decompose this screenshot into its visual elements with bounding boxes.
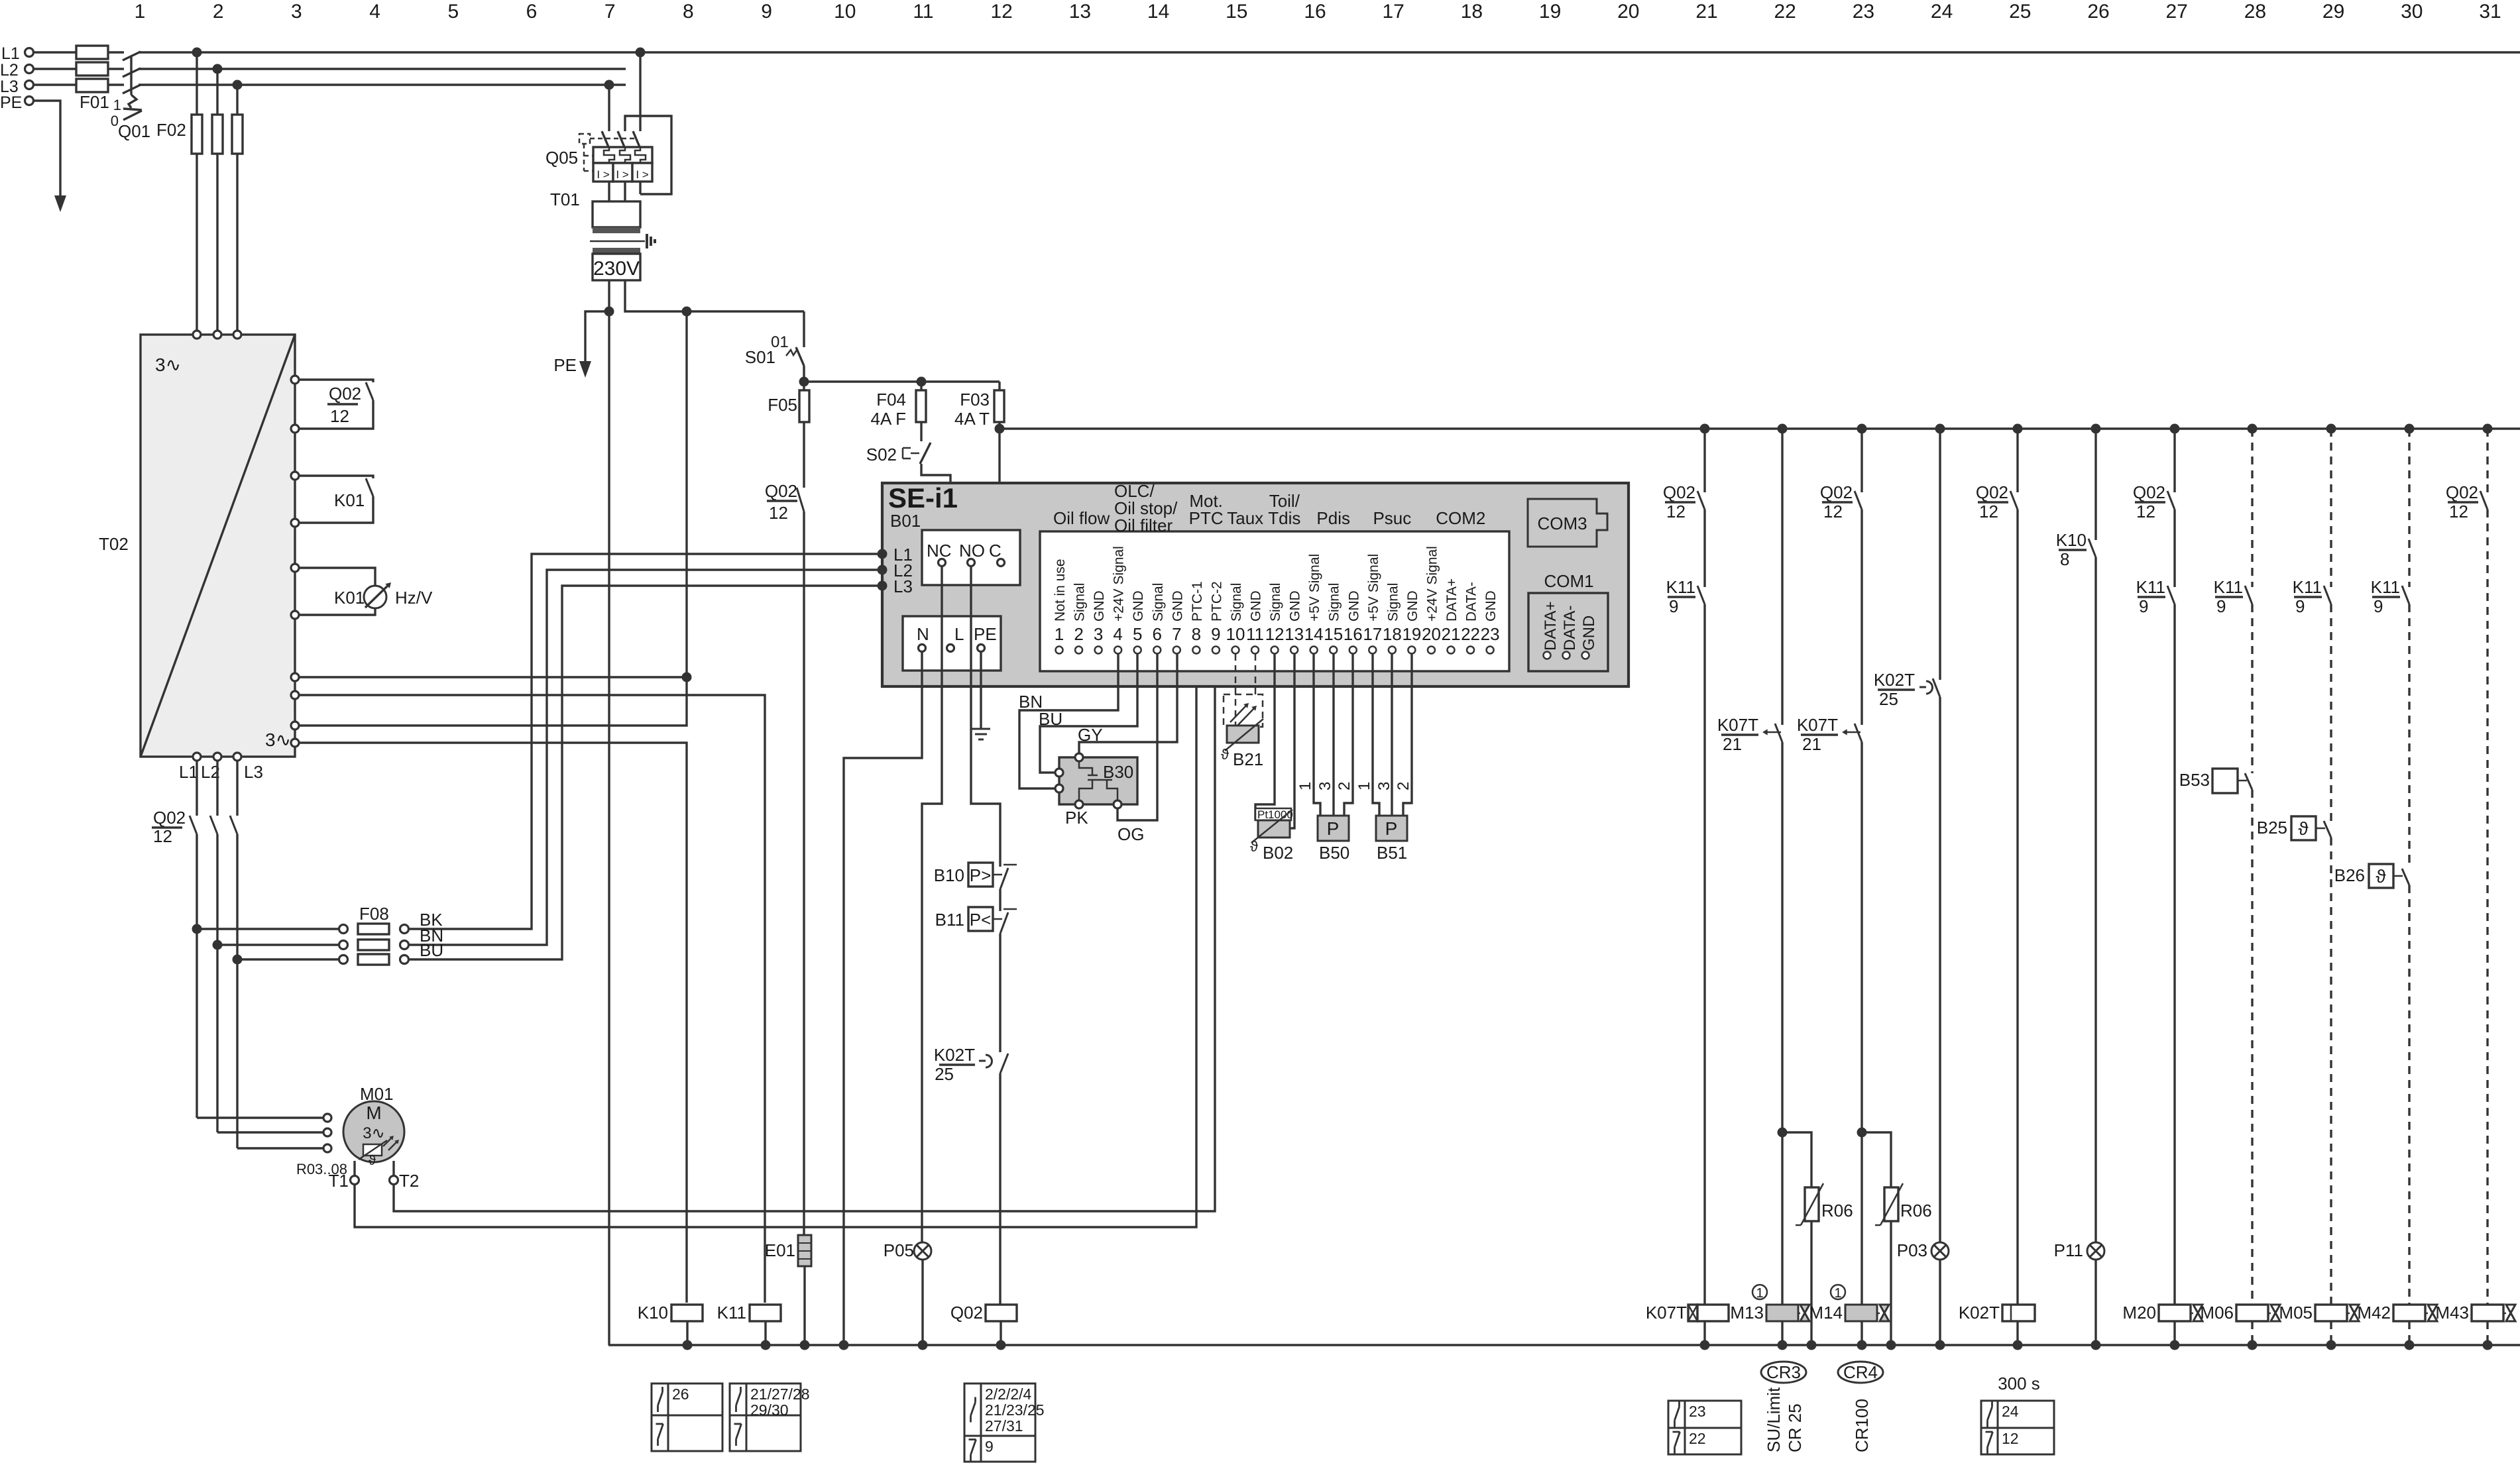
svg-text:COM1: COM1	[1544, 571, 1593, 591]
svg-text:K02T: K02T	[1874, 670, 1915, 690]
module B01 SE-i1 (protection device)	[882, 483, 1629, 686]
wire secondary right (230V live)	[625, 280, 804, 311]
sensor B02 Pt1000 (oil temperature)	[1255, 654, 1275, 820]
fuse block F01	[76, 46, 108, 59]
SE-i1 N L PE box	[903, 616, 1001, 671]
svg-text:2: 2	[1395, 782, 1412, 790]
svg-text:I >: I >	[597, 168, 609, 181]
svg-text:Q02: Q02	[950, 1303, 983, 1323]
svg-text:3∿: 3∿	[265, 730, 291, 750]
svg-text:22: 22	[1461, 624, 1480, 644]
contact Q02/12 (3-pole motor contactor)	[190, 816, 197, 834]
svg-text:3: 3	[1094, 624, 1103, 644]
svg-text:12: 12	[2002, 1430, 2019, 1447]
rail M14 (column 23)	[1861, 429, 1862, 492]
oil sensor B30	[1059, 757, 1137, 804]
svg-text:3: 3	[291, 1, 302, 23]
svg-text:22: 22	[1774, 1, 1796, 23]
svg-text:B21: B21	[1233, 749, 1263, 769]
svg-text:SU/Limit: SU/Limit	[1764, 1387, 1784, 1452]
svg-text:+5V Signal: +5V Signal	[1366, 554, 1381, 622]
svg-text:K10: K10	[638, 1303, 668, 1323]
svg-text:GND: GND	[1092, 590, 1107, 622]
svg-text:PTC: PTC	[1189, 508, 1224, 528]
svg-text:K02T: K02T	[934, 1045, 975, 1065]
svg-text:31: 31	[2479, 1, 2501, 23]
svg-text:Q02: Q02	[2446, 482, 2478, 502]
svg-text:K11: K11	[2214, 577, 2243, 597]
svg-text:26: 26	[672, 1385, 689, 1403]
svg-text:29/30: 29/30	[750, 1401, 789, 1419]
svg-text:COM2: COM2	[1436, 508, 1485, 528]
svg-text:8: 8	[1192, 624, 1201, 644]
svg-text:25: 25	[1879, 689, 1898, 709]
svg-text:S02: S02	[866, 445, 897, 464]
svg-text:6: 6	[1153, 624, 1162, 644]
rail M13 (column 22)	[1781, 429, 1783, 725]
svg-text:19: 19	[1539, 1, 1561, 23]
svg-text:P: P	[1327, 818, 1340, 839]
junction dots to F08	[192, 924, 202, 934]
svg-text:DATA+: DATA+	[1542, 602, 1560, 651]
junction control bus	[799, 377, 809, 387]
svg-text:2/2/2/4: 2/2/2/4	[985, 1385, 1032, 1403]
earth symbol	[972, 728, 990, 730]
svg-text:+24V Signal: +24V Signal	[1112, 546, 1127, 622]
svg-text:BU: BU	[420, 940, 443, 960]
svg-text:ϑ: ϑ	[1221, 746, 1229, 763]
svg-text:PK: PK	[1065, 808, 1088, 828]
svg-text:10: 10	[834, 1, 856, 23]
PE arrow from transformer secondary	[585, 311, 609, 361]
svg-text:13: 13	[1069, 1, 1091, 23]
svg-text:M06: M06	[2200, 1303, 2234, 1323]
svg-text:K11: K11	[2293, 577, 2322, 597]
svg-text:17: 17	[1383, 1, 1404, 23]
Q05 thermal overload box	[593, 147, 652, 163]
top control bus 230V	[1000, 427, 2520, 429]
wire T2 to SE-i1 PTC-2	[394, 653, 1215, 1211]
svg-text:15: 15	[1324, 624, 1343, 644]
mark 1 above M13	[1752, 1285, 1767, 1299]
svg-text:T2: T2	[399, 1171, 419, 1191]
svg-text:P05: P05	[884, 1240, 914, 1260]
switch Q01 (main switch, 3-pole)	[123, 52, 141, 60]
wire secondary left to N rail	[608, 280, 610, 1345]
svg-text:PTC-1: PTC-1	[1190, 581, 1205, 622]
contact table K02T	[1981, 1401, 2054, 1454]
svg-text:9: 9	[1211, 624, 1220, 644]
svg-text:5: 5	[1133, 624, 1142, 644]
svg-text:M14: M14	[1809, 1303, 1843, 1323]
svg-text:8: 8	[683, 1, 694, 23]
svg-text:1: 1	[1055, 624, 1064, 644]
svg-text:13: 13	[1285, 624, 1304, 644]
dashed rail M06 (column 28)	[2251, 429, 2253, 587]
svg-text:24: 24	[2002, 1403, 2019, 1420]
svg-text:Psuc: Psuc	[1373, 508, 1411, 528]
svg-text:2: 2	[213, 1, 224, 23]
svg-text:12: 12	[153, 826, 172, 846]
svg-text:PE: PE	[0, 93, 22, 112]
svg-text:9: 9	[761, 1, 772, 23]
svg-text:K11: K11	[2136, 577, 2165, 597]
svg-text:26: 26	[2087, 1, 2109, 23]
svg-text:16: 16	[1304, 1, 1326, 23]
secondary 230V box	[593, 254, 640, 280]
svg-text:21/23/25: 21/23/25	[985, 1401, 1045, 1419]
svg-text:6: 6	[526, 1, 538, 23]
svg-text:12: 12	[991, 1, 1013, 23]
svg-text:9: 9	[1669, 596, 1678, 616]
svg-text:B11: B11	[935, 910, 964, 930]
dashed rail M05 (column 29)	[2330, 429, 2332, 587]
svg-text:GND: GND	[1346, 590, 1361, 622]
svg-text:Signal: Signal	[1268, 583, 1283, 622]
svg-text:Signal: Signal	[1229, 583, 1244, 622]
svg-text:PE: PE	[553, 355, 577, 375]
svg-text:K11: K11	[1666, 577, 1695, 597]
svg-text:Q02: Q02	[329, 384, 361, 404]
svg-text:14: 14	[1147, 1, 1169, 23]
svg-text:B50: B50	[1319, 843, 1349, 863]
svg-text:CR 25: CR 25	[1785, 1403, 1805, 1452]
svg-text:K07T: K07T	[1797, 715, 1838, 735]
connector COM3	[1528, 499, 1607, 547]
rail K02T (column 24)	[1939, 429, 1941, 680]
svg-text:I >: I >	[636, 168, 648, 181]
wire NC to alarm lamp	[922, 567, 942, 1242]
T02 bottom terminals	[193, 753, 201, 761]
svg-text:GND: GND	[1405, 590, 1420, 622]
varistor R06 (on M14)	[1862, 1132, 1891, 1187]
svg-text:P<: P<	[970, 910, 992, 930]
svg-text:14: 14	[1304, 624, 1324, 644]
svg-text:P11: P11	[2054, 1240, 2083, 1260]
svg-text:20: 20	[1422, 624, 1441, 644]
svg-text:L3: L3	[244, 762, 263, 782]
svg-text:K07T: K07T	[1646, 1303, 1687, 1323]
svg-text:9: 9	[2216, 596, 2226, 616]
wire PE to earth	[980, 652, 982, 729]
motor terminals	[323, 1114, 331, 1122]
svg-text:B53: B53	[2179, 770, 2210, 790]
svg-text:B10: B10	[934, 865, 964, 885]
svg-text:Q02: Q02	[2133, 482, 2165, 502]
svg-text:12: 12	[1979, 502, 1998, 521]
SE-i1 main terminal strip	[1040, 531, 1509, 671]
svg-text:12: 12	[2449, 502, 2468, 521]
rail K02T coil (column 25)	[2016, 429, 2018, 492]
svg-text:GND: GND	[1580, 616, 1598, 651]
wire T02 output 4 to K10	[299, 743, 687, 1303]
svg-text:B30: B30	[1103, 762, 1133, 782]
svg-text:K02T: K02T	[1959, 1303, 2000, 1323]
svg-text:28: 28	[2244, 1, 2266, 23]
svg-text:B25: B25	[2257, 818, 2287, 838]
svg-text:3: 3	[1375, 782, 1393, 790]
svg-text:DATA+: DATA+	[1444, 578, 1460, 622]
svg-text:12: 12	[1823, 502, 1843, 521]
Q05 bypass loop	[625, 116, 671, 194]
junction 230V live to T02 input	[682, 673, 692, 682]
svg-text:Pt1000: Pt1000	[1257, 808, 1293, 821]
junction dots on supply lines	[192, 48, 202, 58]
svg-text:GND: GND	[1249, 590, 1264, 622]
svg-text:M42: M42	[2357, 1303, 2391, 1323]
svg-text:19: 19	[1402, 624, 1421, 644]
svg-text:P>: P>	[970, 865, 992, 885]
svg-text:NC: NC	[927, 541, 952, 561]
contact table Q02	[964, 1383, 1035, 1462]
svg-text:Signal: Signal	[1072, 583, 1088, 622]
svg-text:Q02: Q02	[765, 481, 797, 501]
svg-text:17: 17	[1363, 624, 1382, 644]
svg-text:B01: B01	[890, 511, 921, 531]
svg-text:CR100: CR100	[1852, 1399, 1872, 1452]
sensor B50 (Pdis pressure transmitter)	[1314, 654, 1320, 816]
svg-text:Signal: Signal	[1327, 583, 1342, 622]
svg-text:T02: T02	[99, 534, 129, 554]
wires T02 bottom to motor	[196, 761, 198, 816]
svg-text:27/31: 27/31	[985, 1417, 1023, 1435]
svg-text:23: 23	[1689, 1403, 1706, 1420]
svg-text:230V: 230V	[593, 258, 640, 280]
svg-text:Pdis: Pdis	[1316, 508, 1350, 528]
svg-text:I >: I >	[616, 168, 628, 181]
svg-text:CR4: CR4	[1843, 1362, 1878, 1382]
svg-text:11: 11	[913, 1, 933, 23]
Q05 magnetic trip I> boxes	[593, 163, 613, 182]
svg-text:K11: K11	[717, 1303, 746, 1323]
dial K01 Hz/V (setpoint potentiometer)	[299, 568, 375, 586]
svg-text:9: 9	[2295, 596, 2305, 616]
svg-text:B26: B26	[2334, 865, 2365, 885]
svg-text:Q02: Q02	[1663, 482, 1695, 502]
svg-text:7: 7	[604, 1, 616, 23]
svg-text:+5V Signal: +5V Signal	[1307, 554, 1322, 622]
svg-text:L3: L3	[893, 576, 913, 596]
svg-text:T1: T1	[329, 1171, 349, 1191]
svg-text:12: 12	[330, 406, 349, 426]
svg-text:29: 29	[2322, 1, 2344, 23]
svg-text:24: 24	[1931, 1, 1953, 23]
label CR3	[1761, 1362, 1806, 1383]
svg-text:11: 11	[1246, 624, 1264, 644]
svg-text:K11: K11	[2371, 577, 2400, 597]
svg-text:4A F: 4A F	[871, 409, 906, 429]
dashed rail M43 (column 31)	[2486, 429, 2488, 492]
svg-text:1: 1	[1834, 1286, 1841, 1301]
svg-text:23: 23	[1481, 624, 1500, 644]
svg-text:4A T: 4A T	[954, 409, 990, 429]
varistor R06 (on M13)	[1782, 1132, 1811, 1187]
svg-text:M: M	[366, 1103, 381, 1123]
svg-text:F02: F02	[156, 120, 186, 140]
svg-text:P03: P03	[1897, 1240, 1927, 1260]
svg-text:Q02: Q02	[153, 808, 186, 828]
svg-text:PE: PE	[974, 624, 997, 644]
svg-text:M05: M05	[2279, 1303, 2313, 1323]
svg-text:15: 15	[1226, 1, 1247, 23]
svg-text:2: 2	[1074, 624, 1083, 644]
svg-text:K07T: K07T	[1717, 715, 1758, 735]
earth at transformer screen	[646, 234, 648, 248]
svg-text:10: 10	[1226, 624, 1245, 644]
mark 1 above M14	[1831, 1285, 1845, 1299]
svg-text:1: 1	[1355, 782, 1373, 790]
contact table K07T	[1668, 1401, 1741, 1454]
svg-text:M13: M13	[1730, 1303, 1764, 1323]
dashed rail M42 (column 30)	[2408, 429, 2410, 587]
svg-text:21: 21	[1802, 734, 1821, 754]
sensor B51 (Psuc pressure transmitter)	[1373, 654, 1379, 816]
svg-text:Q01: Q01	[118, 121, 150, 141]
svg-text:K01: K01	[334, 490, 365, 510]
svg-text:Taux: Taux	[1227, 508, 1263, 528]
contact K01 (input of T02)	[299, 476, 373, 478]
svg-text:3∿: 3∿	[363, 1124, 384, 1142]
svg-text:20: 20	[1617, 1, 1639, 23]
frequency inverter T02	[141, 335, 295, 757]
svg-text:DATA-: DATA-	[1561, 606, 1579, 651]
terminal T1	[353, 1161, 355, 1175]
svg-text:9: 9	[985, 1438, 994, 1455]
svg-text:+24V Signal: +24V Signal	[1424, 546, 1440, 622]
wire T02 output 2 to K11	[299, 695, 765, 1303]
wire N terminal	[844, 652, 922, 1345]
svg-text:C: C	[989, 541, 1002, 561]
label CR4	[1838, 1362, 1883, 1383]
rail M20 (column 27)	[2173, 429, 2175, 492]
svg-text:COM3: COM3	[1537, 514, 1587, 533]
svg-text:R06: R06	[1900, 1201, 1932, 1220]
svg-text:23: 23	[1853, 1, 1874, 23]
svg-text:25: 25	[935, 1064, 954, 1084]
terminal T2	[392, 1161, 394, 1175]
svg-text:N: N	[917, 624, 929, 644]
svg-text:9: 9	[2139, 596, 2148, 616]
switch S02 (reset button)	[920, 422, 922, 441]
svg-text:ϑ: ϑ	[2298, 818, 2309, 839]
svg-text:NO: NO	[959, 541, 985, 561]
svg-text:L1: L1	[1, 44, 20, 63]
svg-text:CR3: CR3	[1766, 1362, 1801, 1382]
svg-text:8: 8	[2060, 549, 2069, 569]
svg-text:21: 21	[1695, 1, 1717, 23]
svg-text:F03: F03	[960, 390, 990, 409]
svg-text:P: P	[1385, 818, 1398, 839]
svg-text:GND: GND	[1131, 590, 1146, 622]
svg-text:4: 4	[369, 1, 380, 23]
svg-text:2: 2	[1336, 782, 1353, 790]
svg-text:Oil flow: Oil flow	[1053, 508, 1110, 528]
svg-text:25: 25	[2009, 1, 2031, 23]
contact Q02/12 (enable input of T02)	[299, 380, 373, 382]
svg-text:300 s: 300 s	[1998, 1374, 2040, 1393]
svg-text:SE-i1: SE-i1	[888, 482, 958, 514]
svg-text:DATA-: DATA-	[1464, 582, 1479, 622]
wire F03 to C terminal and right bus	[998, 422, 1000, 559]
sensor B21 (aux temperature, option)	[1235, 654, 1237, 726]
svg-text:27: 27	[2166, 1, 2188, 23]
wire T1 to SE-i1 PTC-1	[355, 653, 1196, 1227]
svg-text:F01: F01	[80, 92, 109, 112]
rail K07T (column 21)	[1703, 429, 1705, 492]
svg-text:22: 22	[1689, 1430, 1706, 1447]
svg-text:12: 12	[1265, 624, 1285, 644]
wire T02 output 1 (digital ref)	[299, 676, 687, 678]
contact table K11	[730, 1383, 801, 1451]
svg-text:1: 1	[1296, 782, 1314, 790]
thermistor inside motor	[363, 1144, 382, 1156]
svg-text:S01: S01	[745, 347, 775, 367]
svg-text:Q05: Q05	[545, 148, 578, 168]
svg-text:16: 16	[1344, 624, 1363, 644]
svg-text:9: 9	[2374, 596, 2383, 616]
svg-text:L2: L2	[0, 61, 19, 80]
svg-text:R06: R06	[1821, 1201, 1853, 1220]
svg-text:1: 1	[135, 1, 146, 23]
Q05 contact levers	[602, 131, 609, 148]
svg-text:18: 18	[1383, 624, 1402, 644]
svg-text:Q02: Q02	[1820, 482, 1853, 502]
svg-text:1: 1	[113, 97, 121, 113]
svg-text:OG: OG	[1117, 824, 1144, 844]
svg-text:3: 3	[1316, 782, 1334, 790]
svg-text:M20: M20	[2122, 1303, 2156, 1323]
svg-text:M43: M43	[2435, 1303, 2469, 1323]
contact table K10	[652, 1383, 722, 1451]
svg-text:Oil filter: Oil filter	[1114, 515, 1173, 535]
svg-text:GND: GND	[1483, 590, 1499, 622]
svg-text:B51: B51	[1377, 843, 1407, 863]
SE-i1 supply terminals L1 L2 L3	[878, 549, 888, 559]
svg-text:T01: T01	[550, 190, 580, 209]
wire NO to safety chain	[971, 567, 1000, 867]
svg-text:12: 12	[769, 503, 788, 523]
svg-text:12: 12	[1666, 502, 1686, 521]
svg-text:F04: F04	[876, 390, 906, 409]
svg-text:B02: B02	[1263, 843, 1293, 863]
svg-text:ϑ: ϑ	[1250, 838, 1258, 855]
svg-text:E01: E01	[765, 1240, 795, 1260]
svg-text:PTC-2: PTC-2	[1209, 581, 1224, 622]
svg-text:GND: GND	[1288, 590, 1303, 622]
svg-text:L1: L1	[179, 762, 198, 782]
svg-text:Not in use: Not in use	[1053, 559, 1068, 622]
svg-text:1: 1	[1756, 1286, 1763, 1301]
svg-text:4: 4	[1113, 624, 1122, 644]
wire 230V live down from T01	[685, 311, 687, 677]
Q05 mechanism (dashed)	[579, 134, 590, 144]
svg-text:5: 5	[447, 1, 459, 23]
svg-text:Signal: Signal	[1385, 583, 1401, 622]
svg-text:ϑ: ϑ	[2376, 866, 2386, 887]
svg-text:12: 12	[2136, 502, 2155, 521]
svg-text:7: 7	[1172, 624, 1181, 644]
svg-text:30: 30	[2401, 1, 2423, 23]
rail P11 (column 26)	[2094, 429, 2096, 540]
bottom N rail	[608, 1344, 2520, 1346]
svg-text:21: 21	[1723, 734, 1742, 754]
svg-text:L: L	[954, 624, 964, 644]
SE-i1 relay box NC NO C	[922, 530, 1020, 585]
svg-text:K10: K10	[2056, 530, 2087, 550]
svg-text:Hz/V: Hz/V	[395, 588, 433, 608]
svg-text:21: 21	[1442, 624, 1461, 644]
svg-text:Q02: Q02	[1976, 482, 2008, 502]
